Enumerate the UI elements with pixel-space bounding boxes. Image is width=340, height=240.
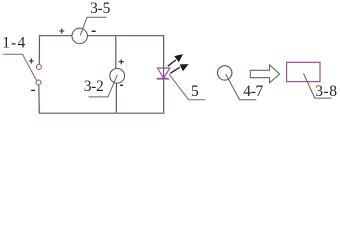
junction dot top right corner bbox=[163, 35, 165, 37]
module box 3-8 bbox=[287, 62, 320, 81]
svg-text:1-4: 1-4 bbox=[2, 35, 25, 52]
svg-text:5: 5 bbox=[191, 83, 199, 100]
wire left lower bbox=[38, 85, 41, 113]
wire top left segment bbox=[40, 35, 73, 37]
minus sign (switch) bbox=[31, 89, 35, 91]
label 3-8 leader bbox=[304, 74, 332, 99]
switch terminal top bbox=[36, 65, 41, 70]
label 3-5 leader bbox=[80, 17, 106, 35]
label 1-4 leader bbox=[3, 54, 37, 80]
junction dot top left corner bbox=[39, 35, 41, 37]
junction dot bottom right corner bbox=[163, 112, 165, 114]
plus sign (3-5) bbox=[59, 29, 64, 34]
source circle 3-2 bbox=[110, 68, 125, 83]
LED cathode bar bbox=[157, 78, 169, 80]
wire middle branch lower bbox=[115, 83, 117, 113]
wire bottom bbox=[39, 112, 164, 114]
switch terminal bottom bbox=[36, 80, 41, 85]
minus sign (3-5) bbox=[92, 30, 96, 32]
source circle 3-5 bbox=[72, 28, 87, 43]
wire right bbox=[163, 36, 165, 114]
plus sign (switch) bbox=[29, 59, 34, 64]
svg-text:3-5: 3-5 bbox=[90, 0, 111, 17]
minus sign (3-2) bbox=[120, 84, 123, 86]
plus sign (3-2) bbox=[119, 59, 124, 64]
junction dot top middle bbox=[115, 35, 117, 37]
label 5 leader bbox=[169, 74, 205, 100]
wire left upper bbox=[38, 35, 40, 64]
sensor circle 4-7 bbox=[218, 66, 232, 80]
block arrow bbox=[250, 65, 279, 83]
label 3-2 leader bbox=[89, 75, 118, 97]
wire middle branch upper bbox=[115, 36, 117, 69]
wire top right segment bbox=[87, 35, 163, 37]
LED light arrow 1 bbox=[168, 55, 182, 66]
LED triangle bbox=[158, 68, 170, 78]
svg-text:4-7: 4-7 bbox=[243, 83, 263, 100]
LED light arrow 2 bbox=[170, 65, 187, 74]
svg-text:3-8: 3-8 bbox=[315, 83, 337, 100]
label 4-7 leader bbox=[226, 74, 256, 100]
junction dot bottom middle bbox=[116, 112, 118, 114]
svg-text:3-2: 3-2 bbox=[84, 78, 104, 95]
